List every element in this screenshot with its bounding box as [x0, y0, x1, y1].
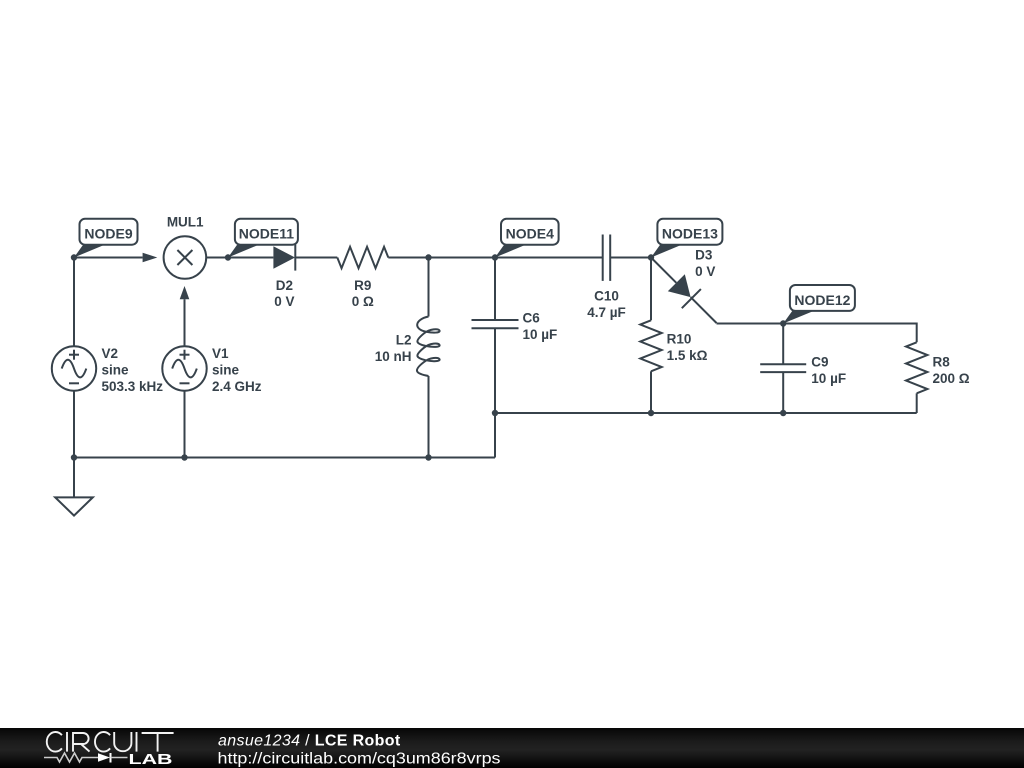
svg-text:2.4 GHz: 2.4 GHz	[212, 379, 262, 394]
diode D2	[273, 244, 295, 309]
footer title text	[218, 733, 401, 750]
inductor L2	[375, 317, 440, 377]
svg-text:10 µF: 10 µF	[811, 371, 846, 386]
voltage source V2	[52, 346, 163, 394]
wire: C6 top lead	[494, 258, 496, 321]
wire: R9 to NODE4 through L2 junction	[388, 257, 602, 259]
svg-text:4.7 µF: 4.7 µF	[587, 305, 626, 320]
wire: C9 bottom lead	[782, 372, 784, 413]
svg-text:R10: R10	[667, 332, 692, 347]
svg-text:503.3 kHz: 503.3 kHz	[102, 379, 164, 394]
svg-text:V2: V2	[102, 346, 119, 361]
wire: NODE9 to MUL1 input	[74, 253, 157, 263]
svg-text:LAB: LAB	[129, 752, 173, 768]
wire: R10 top lead	[650, 258, 652, 321]
diode D3	[651, 248, 717, 324]
resistor R8	[906, 342, 970, 393]
svg-text:1.5 kΩ: 1.5 kΩ	[667, 348, 708, 363]
svg-text:NODE13: NODE13	[662, 226, 718, 242]
svg-text:10 µF: 10 µF	[523, 327, 558, 342]
wire: MUL1 output to NODE11 and D2 anode	[206, 257, 273, 259]
svg-text:NODE12: NODE12	[794, 292, 850, 308]
node NODE12 label	[783, 285, 855, 324]
svg-text:D3: D3	[695, 248, 713, 263]
svg-text:sine: sine	[212, 363, 240, 378]
voltage source V1	[162, 346, 261, 394]
svg-text:10 nH: 10 nH	[375, 349, 412, 364]
svg-text:NODE9: NODE9	[84, 226, 132, 242]
svg-text:C6: C6	[523, 311, 541, 326]
wire: V1 bottom lead	[184, 391, 186, 458]
node NODE4 junction dot	[492, 254, 498, 260]
wire: C6 bottom lead	[494, 328, 496, 413]
svg-text:200 Ω: 200 Ω	[933, 371, 970, 386]
svg-text:sine: sine	[102, 363, 130, 378]
capacitor C6	[472, 311, 558, 343]
wire: R10 bottom lead	[650, 371, 652, 413]
node NODE9 junction dot	[71, 254, 77, 260]
svg-text:V1: V1	[212, 346, 229, 361]
wire: C10 to NODE13	[610, 257, 651, 259]
CircuitLab logo CIRCUIT	[47, 732, 174, 752]
svg-text:R9: R9	[354, 278, 371, 293]
svg-text:ansue1234 / LCE Robot: ansue1234 / LCE Robot	[218, 733, 401, 750]
capacitor C10	[587, 235, 626, 321]
CircuitLab logo LAB	[129, 752, 173, 768]
multiplier MUL1	[164, 215, 207, 279]
node junction dot mid rail at R10	[648, 410, 654, 416]
node NODE12 junction dot	[780, 320, 786, 326]
svg-text:R8: R8	[933, 355, 951, 370]
node junction dot mid rail at C9	[780, 410, 786, 416]
wire: mid rail to ground rail connector	[494, 413, 496, 458]
svg-text:http://circuitlab.com/cq3um86r: http://circuitlab.com/cq3um86r8vrps	[218, 751, 501, 768]
svg-text:NODE4: NODE4	[506, 226, 554, 242]
node NODE9 label	[74, 219, 138, 258]
svg-text:C9: C9	[811, 355, 828, 370]
node junction at L2 top	[425, 254, 431, 260]
node NODE4 label	[495, 219, 559, 258]
svg-text:D2: D2	[276, 278, 293, 293]
wire: V2 top lead	[73, 258, 75, 347]
footer url text	[218, 751, 501, 768]
svg-text:0 V: 0 V	[695, 264, 715, 279]
node NODE13 label	[648, 219, 723, 261]
resistor R9	[337, 247, 388, 309]
node junction dot ground rail V2	[71, 454, 77, 460]
wire: D2 cathode to R9	[295, 257, 337, 259]
wire: V2 bottom lead	[73, 391, 75, 458]
wire: R8 bottom lead	[916, 393, 918, 413]
svg-text:NODE11: NODE11	[239, 226, 294, 242]
wire: D3 cathode to NODE12 and R8 top	[717, 324, 917, 343]
wire: mid rail	[495, 412, 917, 414]
wire: V1 to MUL1 input with arrow	[180, 286, 190, 346]
node junction dot mid rail at C6	[492, 410, 498, 416]
wire: C9 top lead	[782, 324, 784, 365]
node junction dot ground rail V1	[181, 454, 187, 460]
svg-text:MUL1: MUL1	[167, 215, 204, 230]
svg-text:0 Ω: 0 Ω	[352, 294, 374, 309]
wire: L2 top lead	[428, 258, 430, 317]
ground	[55, 458, 93, 516]
node junction dot ground rail L2	[425, 454, 431, 460]
CircuitLab logo resistor-diode glyph	[44, 753, 128, 763]
svg-text:C10: C10	[594, 289, 619, 304]
capacitor C9	[760, 355, 846, 387]
svg-text:0 V: 0 V	[274, 294, 294, 309]
svg-text:L2: L2	[396, 333, 412, 348]
node NODE11 label	[225, 219, 298, 261]
wire: L2 bottom lead	[428, 376, 430, 458]
wire: ground rail	[74, 457, 495, 459]
resistor R10	[640, 320, 707, 371]
